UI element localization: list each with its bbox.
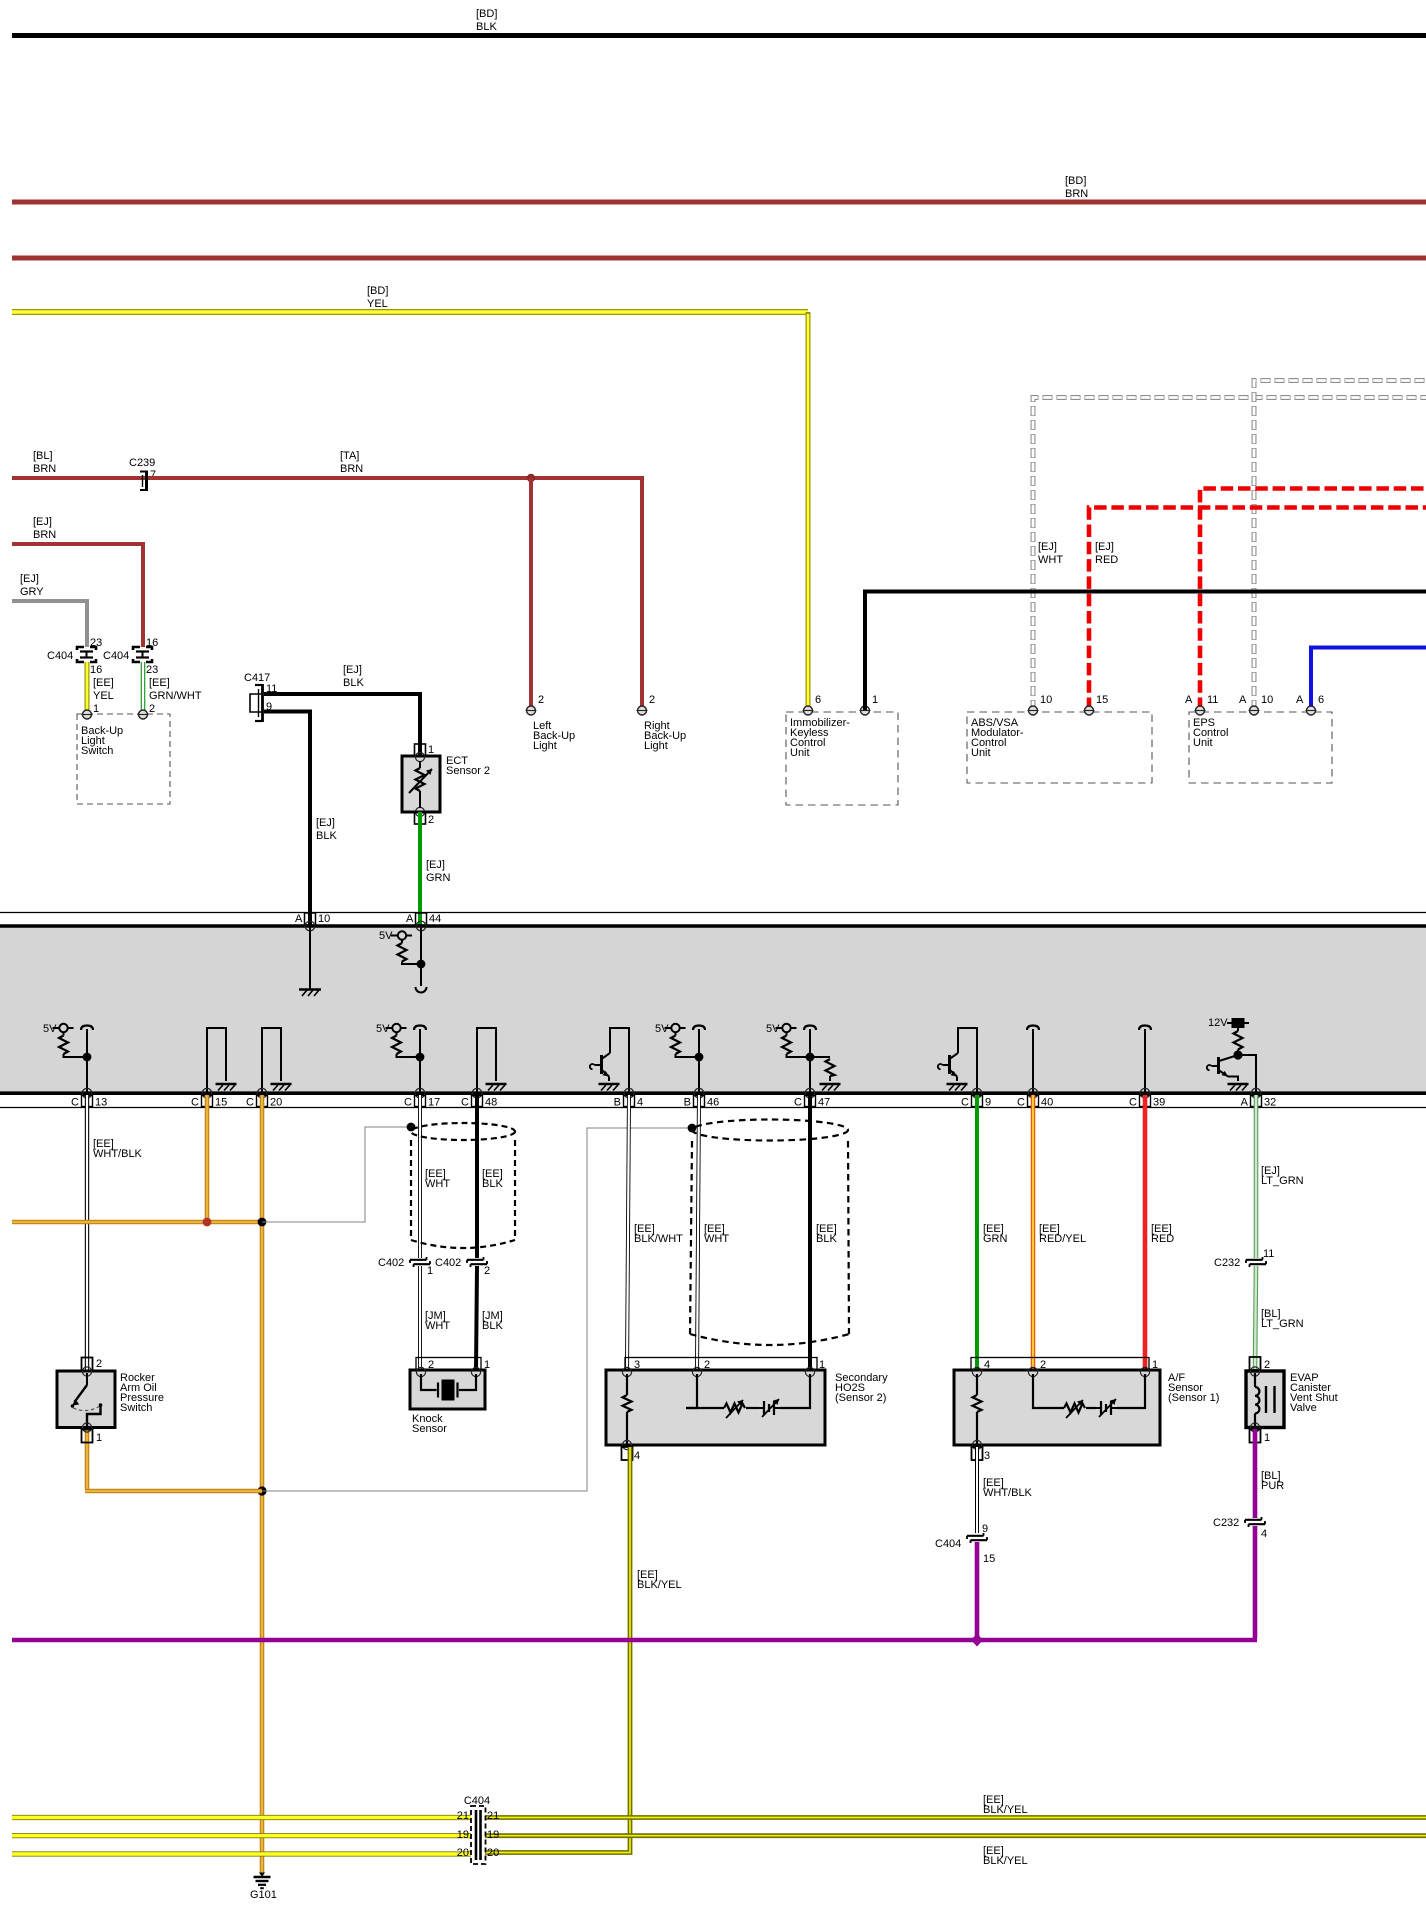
Left Back-Up Light terminal 2 [526, 694, 576, 752]
Rocker Arm Oil Pressure Switch body [57, 1367, 164, 1428]
terminal C 40 (pin box, circle, labels) [1017, 1088, 1053, 1108]
svg-text:BRN: BRN [33, 529, 56, 541]
svg-text:15: 15 [983, 1553, 995, 1565]
wire [EJ] GRY [12, 573, 87, 647]
svg-text:B: B [614, 1097, 621, 1109]
ECM internal loop to ground at C48 [477, 1028, 507, 1093]
svg-text:BLK/WHT: BLK/WHT [634, 1233, 683, 1245]
svg-text:Sensor 2: Sensor 2 [446, 765, 490, 777]
svg-text:BLK: BLK [316, 830, 337, 842]
wire ORN horizontal bus from left edge [12, 1220, 262, 1225]
terminal A 10 (pin box, circle, labels) [295, 913, 330, 931]
svg-text:Unit: Unit [790, 747, 810, 759]
EPS Control Unit box [1189, 712, 1332, 783]
ECM internal stub at C40 [1027, 1026, 1039, 1094]
Rocker Arm Oil Pressure Switch pin 2 box [82, 1358, 103, 1371]
wire [EE] RED from C39 to A/F sensor pin 1 [1145, 1095, 1174, 1371]
ECT Sensor 2 pin 2 box [415, 812, 435, 826]
ECM internal 5V pull-up at C17 [376, 1023, 426, 1093]
svg-text:A: A [295, 913, 303, 925]
svg-text:16: 16 [90, 664, 102, 676]
wire YEL bus line 3 (C404 pin 20) [12, 1851, 471, 1856]
svg-text:1: 1 [96, 1432, 102, 1444]
svg-text:BLK: BLK [816, 1233, 837, 1245]
wire [EE] WHT from B46 to secondary HO2S pin 2 [697, 1095, 729, 1371]
svg-text:21: 21 [487, 1810, 499, 1822]
EVAP valve pin 1 box [1250, 1423, 1271, 1444]
wire [EJ] GRN from ECT pin 2 to ECM A44 [420, 812, 451, 926]
terminal A 32 (pin box, circle, labels) [1241, 1088, 1277, 1108]
Knock Sensor body [410, 1367, 485, 1435]
svg-text:44: 44 [429, 913, 441, 925]
wire [EJ] BLK from C417 pin 9 down to ECM A10 [264, 712, 337, 927]
junction ORN at C15 [203, 1218, 212, 1227]
wire ORN from C20 down to G101 [260, 1095, 265, 1873]
svg-text:40: 40 [1041, 1097, 1053, 1109]
svg-text:BRN: BRN [33, 463, 56, 475]
svg-text:[EJ]: [EJ] [20, 573, 39, 585]
terminal A 11 EPS [1185, 694, 1218, 715]
Rocker Arm Oil Pressure Switch pin 1 box [82, 1423, 103, 1444]
terminal C 13 (pin box, circle, labels) [71, 1088, 107, 1108]
ECM internal stub at C39 [1139, 1026, 1151, 1094]
ECM internal ground from A10 [299, 926, 321, 996]
wire [EJ] RED dashed to EPS A11 [1200, 489, 1426, 711]
svg-text:2: 2 [96, 1358, 102, 1370]
connector C402 pin 2 [435, 1257, 490, 1277]
wire [BD] BRN lower bus [12, 256, 1426, 261]
svg-text:10: 10 [1040, 694, 1052, 706]
svg-text:C404: C404 [103, 650, 129, 662]
svg-text:Switch: Switch [81, 745, 113, 757]
svg-text:11: 11 [1207, 694, 1218, 706]
svg-text:12V: 12V [1208, 1017, 1228, 1029]
svg-text:C: C [1129, 1097, 1137, 1109]
svg-text:1: 1 [872, 694, 878, 706]
EVAP valve pin 2 box [1250, 1357, 1271, 1371]
wire [EE] BLK/WHT from B4 to secondary HO2S pin 3 [627, 1095, 683, 1371]
connector C404 pin 23/16 (gray wire) [47, 637, 102, 676]
wire [JM] BLK from C402 to knock sensor pin 1 [476, 1266, 503, 1371]
wire PUR horizontal bus [12, 1638, 1257, 1643]
thin sense wire from rocker branch to secondary HO2S WHT wire [262, 1128, 692, 1491]
wire [EE] WHT from C17 to C402 [420, 1095, 450, 1258]
terminal A 44 (pin box, circle, labels) [406, 913, 441, 931]
svg-text:Light: Light [644, 740, 668, 752]
svg-text:[EJ]: [EJ] [1095, 541, 1114, 553]
wire [EJ] BRN [12, 516, 143, 647]
svg-text:[BD]: [BD] [476, 8, 497, 20]
svg-text:C232: C232 [1213, 1517, 1239, 1529]
svg-text:C: C [961, 1097, 969, 1109]
wire [BD] YEL bus [12, 285, 808, 312]
terminal C 9 (pin box, circle, labels) [961, 1088, 991, 1108]
svg-text:Unit: Unit [1193, 737, 1213, 749]
terminal C 48 (pin box, circle, labels) [461, 1088, 497, 1108]
connector C404 bottom (pins 21/19/20) [457, 1795, 500, 1864]
svg-text:[EJ]: [EJ] [316, 817, 335, 829]
svg-text:A: A [1239, 694, 1247, 706]
svg-text:15: 15 [1096, 694, 1108, 706]
svg-text:4: 4 [1261, 1528, 1267, 1540]
svg-text:1: 1 [93, 703, 99, 715]
wire [JM] WHT from C402 to knock sensor pin 2 [420, 1266, 450, 1371]
svg-text:[TA]: [TA] [340, 450, 359, 462]
ECM internal 12V driver transistor at A32 [1207, 1017, 1256, 1093]
wire [EE] WHT/BLK from C13 to rocker arm switch pin 2 [87, 1095, 143, 1371]
wire [BD] BLK top bus [12, 8, 1426, 36]
wire PUR from C232 down to purple bus corner [1253, 1526, 1258, 1638]
svg-text:Unit: Unit [971, 747, 991, 759]
wire [EJ] BLK from C417 pin 11 to ECT sensor [264, 664, 420, 757]
connector C417 pins 11 and 9 [244, 672, 277, 722]
wire YEL bus line 2 (C404 pin 19) [12, 1833, 471, 1838]
svg-text:WHT: WHT [425, 1320, 450, 1332]
svg-text:[EJ]: [EJ] [1038, 541, 1057, 553]
svg-text:11: 11 [1263, 1248, 1274, 1260]
terminal 15 ABS/VSA [1084, 694, 1109, 715]
connector C404 pins 9/15 [935, 1523, 995, 1565]
svg-text:[EJ]: [EJ] [33, 516, 52, 528]
junction PUR at C404 drop [971, 1634, 983, 1647]
ECM internal 5V pull-up with load resistor at C47 [766, 1023, 841, 1093]
wire [EJ] LT_GRN from A32 to C232 [1256, 1095, 1304, 1258]
wire ORN from rocker pin 1 [85, 1428, 262, 1491]
svg-text:C: C [191, 1097, 199, 1109]
wire [EE] BLK from C48 to C402 [477, 1095, 503, 1258]
wire [BD] YEL drop to immobilizer pin 6 [806, 312, 811, 710]
A/F Sensor pin 3 box [972, 1440, 991, 1462]
svg-text:10: 10 [318, 913, 330, 925]
junction dot on knock sensor WHT wire [407, 1123, 416, 1132]
svg-text:1: 1 [427, 1265, 433, 1277]
connector C232 pin 11 [1214, 1248, 1274, 1269]
terminal 1 back-up light switch [82, 710, 93, 719]
svg-text:1: 1 [428, 744, 434, 756]
svg-text:BLK: BLK [482, 1320, 503, 1332]
svg-text:[EJ]: [EJ] [426, 859, 445, 871]
ECM internal 5V pull-up at A44 [379, 926, 427, 993]
svg-text:4: 4 [634, 1450, 640, 1462]
ECM/PCM gray band [0, 926, 1426, 1092]
terminal 1 immobilizer [860, 694, 879, 715]
ground G101 [250, 1873, 277, 1902]
terminal 6 immobilizer [803, 694, 822, 715]
connector C239 pin 7 [129, 457, 156, 491]
wire [EJ] WHT dashed to ABS/VSA pin 10 [1033, 398, 1426, 711]
terminal C 20 (pin box, circle, labels) [246, 1088, 282, 1108]
svg-text:46: 46 [707, 1097, 719, 1109]
svg-text:RED: RED [1095, 554, 1118, 566]
ECM internal 5V pull-up at C13 [43, 1023, 93, 1093]
junction on TA BRN at left back-up light drop [527, 474, 535, 482]
svg-text:1: 1 [1264, 1432, 1270, 1444]
svg-text:Valve: Valve [1290, 1402, 1317, 1414]
svg-text:[BL]: [BL] [33, 450, 53, 462]
svg-text:GRN: GRN [426, 872, 451, 884]
svg-text:B: B [684, 1097, 691, 1109]
svg-text:BLK: BLK [476, 21, 497, 33]
svg-text:20: 20 [487, 1847, 499, 1859]
svg-text:GRN/WHT: GRN/WHT [149, 690, 202, 702]
svg-text:C: C [404, 1097, 412, 1109]
wire [BD] BRN upper bus [12, 175, 1426, 202]
svg-text:48: 48 [485, 1097, 497, 1109]
svg-text:32: 32 [1264, 1097, 1276, 1109]
wire [EE] PUR from C404 pin 15 down to purple bus [975, 1542, 980, 1640]
svg-text:2: 2 [1264, 1359, 1270, 1371]
svg-text:BRN: BRN [340, 463, 363, 475]
svg-text:C404: C404 [935, 1538, 961, 1550]
ECM internal loop to ground at C20 [262, 1028, 292, 1093]
EVAP Canister Vent Shut Valve body [1246, 1367, 1338, 1428]
wire [BL] BRN from left [12, 450, 145, 478]
terminal A 6 EPS [1296, 694, 1324, 715]
svg-text:BRN: BRN [1065, 188, 1088, 200]
junction ORN at C20 [258, 1218, 267, 1227]
svg-text:C: C [71, 1097, 79, 1109]
svg-text:C: C [246, 1097, 254, 1109]
svg-text:15: 15 [215, 1097, 227, 1109]
wire ORN from C15 down to junction [205, 1095, 210, 1222]
svg-text:39: 39 [1153, 1097, 1165, 1109]
svg-text:YEL: YEL [93, 690, 114, 702]
Immobilizer-Keyless Control Unit box [786, 712, 898, 805]
terminal C 17 (pin box, circle, labels) [404, 1088, 440, 1108]
wire [EE] GRN from C9 to A/F sensor pin 4 [977, 1095, 1008, 1371]
ECM/PCM top terminal row line [0, 912, 1426, 914]
svg-text:[BD]: [BD] [1065, 175, 1086, 187]
svg-text:GRN: GRN [983, 1233, 1008, 1245]
wire BRN drop to Left Back-Up Light [529, 478, 533, 706]
svg-text:G101: G101 [250, 1889, 277, 1901]
ECM/PCM band top border [0, 924, 1426, 928]
ABS/VSA Modulator-Control Unit box [967, 712, 1152, 783]
connector C404 pin 16/23 (brn wire) [103, 637, 158, 676]
svg-text:BLK/YEL: BLK/YEL [983, 1855, 1028, 1867]
svg-text:23: 23 [90, 637, 102, 649]
svg-text:WHT: WHT [704, 1233, 729, 1245]
svg-text:2: 2 [149, 703, 155, 715]
svg-text:C239: C239 [129, 457, 155, 469]
svg-text:C: C [794, 1097, 802, 1109]
svg-text:WHT: WHT [425, 1178, 450, 1190]
wire [BL] LT_GRN from C232 to EVAP valve pin 2 [1255, 1266, 1304, 1371]
wire BRN corner drop to Right Back-Up Light [640, 476, 644, 706]
Right Back-Up Light terminal 2 [637, 694, 687, 752]
Secondary HO2S pin 4 box [622, 1440, 641, 1462]
svg-text:BLK/YEL: BLK/YEL [637, 1579, 682, 1591]
svg-text:LT_GRN: LT_GRN [1261, 1175, 1304, 1187]
svg-text:C232: C232 [1214, 1257, 1240, 1269]
wire [EE] YEL to back-up light switch pin 1 [87, 662, 114, 715]
svg-text:BLK: BLK [482, 1178, 503, 1190]
svg-text:6: 6 [815, 694, 821, 706]
wire [EE] BLK/YEL right bus line 1 [485, 1815, 1426, 1820]
Secondary HO2S body [606, 1367, 888, 1445]
junction dot on secondary HO2S WHT wire [688, 1124, 697, 1133]
svg-text:A: A [1241, 1097, 1249, 1109]
svg-text:9: 9 [985, 1097, 991, 1109]
terminal B 46 (pin box, circle, labels) [684, 1088, 720, 1108]
wire [EE] WHT/BLK from A/F pin 3 to C404 [977, 1447, 1033, 1533]
svg-text:9: 9 [982, 1523, 988, 1535]
svg-text:3: 3 [984, 1450, 990, 1462]
svg-text:[EE]: [EE] [149, 677, 170, 689]
svg-text:C: C [461, 1097, 469, 1109]
ECM internal transistor at B4 [590, 1028, 629, 1093]
svg-text:A: A [1185, 694, 1193, 706]
svg-text:2: 2 [649, 694, 655, 706]
Secondary HO2S connector strip [625, 1358, 825, 1372]
terminal C 15 (pin box, circle, labels) [191, 1088, 227, 1108]
svg-text:23: 23 [146, 664, 158, 676]
wire [BL] PUR from EVAP pin 1 to C232 [1255, 1429, 1284, 1518]
junction ORN at rocker arm branch [257, 1486, 266, 1495]
wire [EE] BLK/YEL right bus line 2 [485, 1833, 1426, 1838]
svg-text:16: 16 [146, 637, 158, 649]
shield cylinder around knock sensor wires [411, 1123, 515, 1248]
svg-text:10: 10 [1261, 694, 1273, 706]
ECM/PCM band bottom border [0, 1091, 1426, 1095]
svg-text:47: 47 [818, 1097, 830, 1109]
svg-text:6: 6 [1318, 694, 1324, 706]
svg-text:[EE]: [EE] [93, 677, 114, 689]
svg-text:Sensor: Sensor [412, 1423, 447, 1435]
terminal C 39 (pin box, circle, labels) [1129, 1088, 1165, 1108]
terminal B 4 (pin box, circle, labels) [614, 1088, 643, 1108]
svg-text:2: 2 [484, 1265, 490, 1277]
svg-text:GRY: GRY [20, 586, 44, 598]
svg-text:Light: Light [533, 740, 557, 752]
svg-text:21: 21 [457, 1810, 469, 1822]
wire YEL bus line 1 (C404 pin 21) [12, 1815, 471, 1820]
svg-text:WHT/BLK: WHT/BLK [93, 1148, 143, 1160]
ECM internal transistor at C9 [938, 1028, 977, 1093]
svg-text:2: 2 [428, 814, 434, 826]
wire [EJ] RED dashed to ABS/VSA pin 15 [1089, 508, 1426, 711]
svg-text:RED/YEL: RED/YEL [1039, 1233, 1086, 1245]
wire [EE] BLK/YEL from secondary HO2S pin 4 to C404 pin 20 [485, 1447, 682, 1853]
svg-text:(Sensor 1): (Sensor 1) [1168, 1392, 1219, 1404]
svg-text:2: 2 [538, 694, 544, 706]
svg-text:19: 19 [457, 1829, 469, 1841]
ECT Sensor 2 pin 1 box [415, 744, 435, 756]
A/F Sensor body [954, 1367, 1219, 1445]
svg-text:A: A [1296, 694, 1304, 706]
ECM internal loop to ground at C15 [207, 1028, 237, 1093]
svg-text:BLK/YEL: BLK/YEL [983, 1804, 1028, 1816]
wire black from immobilizer pin 1 [865, 592, 1426, 711]
svg-text:C402: C402 [378, 1257, 404, 1269]
connector C402 pin 1 [378, 1257, 433, 1277]
svg-text:BLK: BLK [343, 677, 364, 689]
ECM/PCM bottom terminal row line [0, 1107, 1426, 1109]
wire [EE] RED/YEL from C40 to A/F sensor pin 2 [1033, 1095, 1086, 1371]
wire [TA] BRN [148, 450, 642, 478]
wire blue to EPS A6 [1311, 648, 1426, 711]
Knock Sensor connector strip [416, 1358, 490, 1372]
ECT Sensor 2 body [402, 752, 490, 816]
shield cylinder around secondary HO2S wires [690, 1120, 849, 1346]
svg-text:Switch: Switch [120, 1402, 152, 1414]
terminal C 47 (pin box, circle, labels) [794, 1088, 830, 1108]
svg-text:C404: C404 [47, 650, 73, 662]
Back-Up Light Switch dashed box [77, 714, 170, 804]
svg-text:20: 20 [270, 1097, 282, 1109]
wire [EJ] WHT dashed to EPS A10 [1254, 381, 1426, 711]
svg-text:LT_GRN: LT_GRN [1261, 1318, 1304, 1330]
svg-text:4: 4 [637, 1097, 643, 1109]
svg-text:WHT: WHT [1038, 554, 1063, 566]
ECM internal 5V pull-up at B46 [655, 1023, 705, 1093]
svg-text:WHT/BLK: WHT/BLK [983, 1487, 1033, 1499]
svg-text:A: A [406, 913, 414, 925]
terminal 2 back-up light switch [138, 710, 149, 719]
svg-text:[EJ]: [EJ] [343, 664, 362, 676]
svg-text:C: C [1017, 1097, 1025, 1109]
terminal A 10 EPS [1239, 694, 1273, 715]
svg-text:13: 13 [95, 1097, 107, 1109]
svg-text:RED: RED [1151, 1233, 1174, 1245]
svg-text:17: 17 [428, 1097, 440, 1109]
A/F Sensor connector strip [971, 1358, 1158, 1372]
wire [EE] BLK from C47 to secondary HO2S pin 1 [810, 1095, 837, 1371]
svg-text:C404: C404 [464, 1795, 490, 1807]
svg-text:(Sensor 2): (Sensor 2) [835, 1392, 886, 1404]
svg-text:PUR: PUR [1261, 1480, 1284, 1492]
svg-text:C402: C402 [435, 1257, 461, 1269]
svg-text:[BD]: [BD] [367, 285, 388, 297]
svg-text:YEL: YEL [367, 298, 388, 310]
svg-text:19: 19 [487, 1829, 499, 1841]
terminal 10 ABS/VSA [1028, 694, 1053, 715]
svg-text:20: 20 [457, 1847, 469, 1859]
thin sense wire from C20 junction to WHT wire of knock sensor [262, 1127, 411, 1222]
wire [EE] GRN/WHT to back-up light switch pin 2 [143, 662, 202, 715]
connector C232 pin 4 [1213, 1517, 1267, 1540]
